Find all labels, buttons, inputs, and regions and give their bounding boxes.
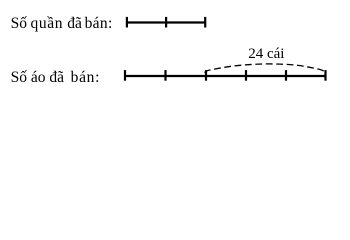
node: shirts tick 4	[245, 70, 247, 81]
node: shirts tick 1	[124, 70, 126, 81]
wire: shirts bar line	[125, 75, 326, 77]
node: pants tick 1	[126, 17, 128, 28]
wire: pants bar line	[127, 21, 205, 23]
node: shirts tick 6	[324, 70, 326, 81]
brace: dashed arc over last three segments	[205, 64, 326, 74]
node: shirts tick 5	[285, 70, 287, 81]
svg-text:Số quần đã bán:: Số quần đã bán:	[11, 15, 113, 32]
node: pants tick 2	[165, 17, 167, 28]
svg-text:24 cái: 24 cái	[248, 46, 284, 62]
node: shirts tick 3	[205, 70, 207, 81]
node: pants tick 3	[204, 17, 206, 28]
svg-text:Số áo đã bán:: Số áo đã bán:	[11, 69, 101, 86]
node: shirts tick 2	[164, 70, 166, 81]
